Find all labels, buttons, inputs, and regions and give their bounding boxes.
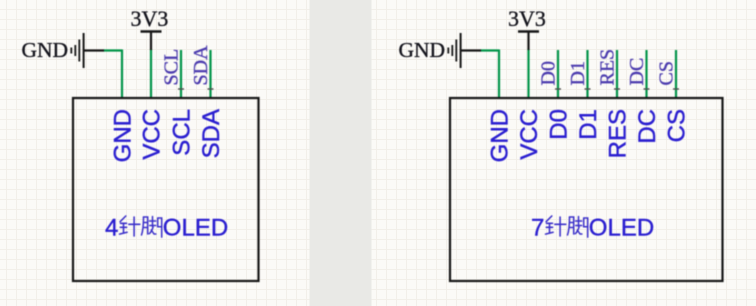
wire 3V3 net to pin VCC (right) xyxy=(527,49,529,98)
wire 3V3 net to pin VCC (left) xyxy=(150,49,152,98)
pin end tick RES (right) xyxy=(614,88,620,90)
wire net SDA (left) xyxy=(209,50,211,98)
power port 3V3 (left) xyxy=(141,32,162,51)
svg-text:CS: CS xyxy=(656,61,678,85)
wire net DC (right) xyxy=(645,50,647,98)
power port 3V3 (right) xyxy=(518,32,539,51)
wire GND net horizontal (left) xyxy=(104,49,123,51)
pin end tick DC (right) xyxy=(644,88,650,90)
wire GND net vertical to pin GND (left) xyxy=(121,50,123,99)
svg-text:OLED: OLED xyxy=(163,215,228,242)
pin end tick D1 (right) xyxy=(585,88,591,90)
value label "7针脚OLED" (right U2) xyxy=(531,215,654,242)
svg-text:GND: GND xyxy=(399,38,446,62)
svg-text:D0: D0 xyxy=(538,61,560,85)
wire net D1 (right) xyxy=(586,50,588,98)
ground symbol GND (left) xyxy=(71,33,104,68)
component U1: 4-pin OLED sheet symbol box xyxy=(73,98,259,281)
svg-text:DC: DC xyxy=(626,58,648,86)
wire net CS (right) xyxy=(675,50,677,98)
svg-text:3V3: 3V3 xyxy=(508,6,546,31)
svg-text:VCC: VCC xyxy=(139,109,166,160)
wire GND net horizontal (right) xyxy=(481,49,500,51)
svg-text:D1: D1 xyxy=(567,61,589,85)
value label "4针脚OLED" (left U1) xyxy=(105,215,228,242)
svg-text:SDA: SDA xyxy=(198,109,225,158)
svg-text:CS: CS xyxy=(664,109,691,142)
pin end tick D0 (right) xyxy=(555,88,561,90)
svg-text:7: 7 xyxy=(531,215,544,242)
svg-text:GND: GND xyxy=(110,109,137,162)
gray divider band xyxy=(310,0,372,306)
wire net SCL (left) xyxy=(180,50,182,98)
svg-text:VCC: VCC xyxy=(516,109,543,160)
pin end tick CS (right) xyxy=(673,88,679,90)
wire net RES (right) xyxy=(616,50,618,98)
svg-text:4: 4 xyxy=(105,215,118,242)
svg-text:GND: GND xyxy=(487,109,514,162)
pin end tick SCL (left) xyxy=(178,88,184,90)
svg-text:GND: GND xyxy=(22,38,69,62)
svg-text:SCL: SCL xyxy=(169,109,196,156)
svg-text:SCL: SCL xyxy=(161,49,183,86)
svg-text:D0: D0 xyxy=(546,109,573,140)
wire net D0 (right) xyxy=(557,50,559,98)
svg-text:DC: DC xyxy=(634,109,661,144)
svg-text:SDA: SDA xyxy=(190,45,212,86)
svg-text:3V3: 3V3 xyxy=(131,6,169,31)
component U2: 7-pin OLED sheet symbol box xyxy=(450,98,723,281)
svg-text:D1: D1 xyxy=(575,109,602,140)
svg-text:OLED: OLED xyxy=(589,215,654,242)
pin end tick SDA (left) xyxy=(208,88,214,90)
svg-text:RES: RES xyxy=(597,49,619,86)
svg-text:RES: RES xyxy=(605,109,632,158)
ground symbol GND (right) xyxy=(448,33,481,68)
wire GND net vertical to pin GND (right) xyxy=(498,50,500,99)
